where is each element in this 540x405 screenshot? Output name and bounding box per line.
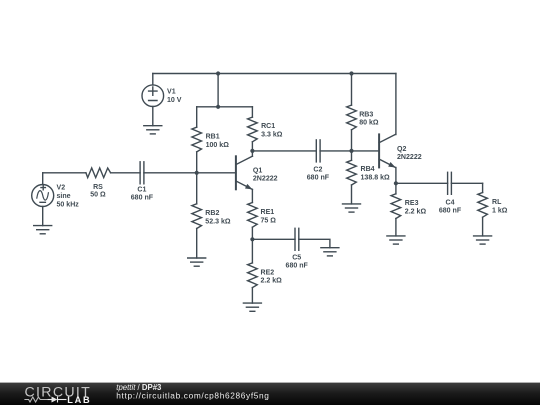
resistor RC1 — [248, 107, 258, 151]
wire Q1 collector to C2 — [252, 150, 316, 152]
svg-text:680 nF: 680 nF — [439, 207, 462, 214]
ground after C5 — [321, 248, 339, 256]
transistor Q1 2N2222 — [236, 151, 253, 203]
label RL 1 kΩ — [492, 199, 508, 214]
resistor RB1 — [192, 107, 202, 173]
wire C2 to Q2 base node — [320, 150, 379, 152]
svg-text:http://circuitlab.com/cp8h6286: http://circuitlab.com/cp8h6286yf5ng — [116, 391, 269, 401]
resistor RB2 — [192, 173, 202, 258]
label RB2 52.3 kΩ — [205, 210, 231, 225]
label V1 10 V — [167, 88, 182, 104]
svg-text:2.2 kΩ: 2.2 kΩ — [261, 278, 283, 285]
svg-text:RE2: RE2 — [261, 269, 275, 276]
ground under V2 — [34, 226, 52, 234]
ground under RB2 — [188, 258, 206, 266]
wire C4 to RL — [451, 182, 482, 184]
wire C1 to Q1 base — [144, 172, 236, 174]
svg-text:RC1: RC1 — [261, 123, 275, 130]
resistor RB4 — [347, 151, 357, 204]
svg-text:V2: V2 — [57, 185, 66, 192]
svg-text:80 kΩ: 80 kΩ — [359, 120, 379, 127]
voltage source V1 — [142, 74, 164, 126]
svg-text:100 kΩ: 100 kΩ — [206, 142, 230, 149]
label RB3 80 kΩ — [359, 111, 379, 126]
resistor RE1 — [248, 203, 258, 240]
logo diode symbol — [47, 397, 66, 403]
svg-text:2.2 kΩ: 2.2 kΩ — [405, 209, 427, 216]
label RS 50 Ω — [90, 184, 106, 199]
node Q2 emitter junction — [394, 181, 398, 185]
resistor RE3 — [391, 183, 401, 236]
svg-text:RE1: RE1 — [261, 209, 275, 216]
capacitor C5 — [295, 228, 299, 250]
label RB4 138.8 kΩ — [361, 166, 391, 181]
label RC1 3.3 kΩ — [261, 123, 283, 138]
capacitor C1 — [140, 162, 144, 184]
svg-text:C4: C4 — [445, 199, 454, 206]
svg-text:52.3 kΩ: 52.3 kΩ — [205, 218, 231, 225]
node base-bias junction — [195, 171, 199, 175]
capacitor C4 — [448, 172, 452, 194]
label C4 680 nF — [439, 199, 462, 214]
svg-text:C5: C5 — [292, 254, 301, 261]
svg-text:50 kHz: 50 kHz — [57, 202, 80, 209]
label C1 680 nF — [131, 186, 154, 201]
svg-text:V1: V1 — [167, 88, 176, 95]
svg-text:RB4: RB4 — [361, 166, 375, 173]
node RB3-RB4-Q2 base junction — [349, 149, 353, 153]
node Q1 emitter junction — [250, 237, 254, 241]
ground under RE3 — [387, 236, 405, 244]
svg-text:3.3 kΩ: 3.3 kΩ — [261, 132, 283, 139]
wire RS to C1 — [111, 172, 141, 174]
ground under RL — [474, 236, 492, 244]
svg-text:C2: C2 — [313, 167, 322, 174]
wire RB1-RC1 top bus — [197, 106, 253, 108]
transistor Q2 2N2222 — [379, 134, 396, 183]
svg-text:1 kΩ: 1 kΩ — [492, 208, 508, 215]
label C5 680 nF — [286, 254, 309, 269]
footer bar — [0, 383, 540, 405]
wire RE1 junction to C5 — [252, 238, 295, 240]
svg-text:RE3: RE3 — [405, 200, 419, 207]
svg-text:sine: sine — [57, 193, 71, 200]
svg-text:75 Ω: 75 Ω — [261, 217, 277, 224]
resistor RL — [478, 183, 488, 236]
label RB1 100 kΩ — [206, 133, 230, 148]
resistor RE2 — [248, 239, 258, 303]
svg-text:2N2222: 2N2222 — [253, 176, 278, 183]
svg-text:50 Ω: 50 Ω — [90, 192, 106, 199]
label C2 680 nF — [307, 167, 330, 182]
node rail-RB1 branch junction — [216, 71, 220, 75]
logo resistor zigzag — [24, 397, 47, 402]
ground under RE2 — [243, 303, 261, 311]
voltage source V2 (sine) — [32, 173, 54, 226]
node Q1 collector junction — [250, 149, 254, 153]
svg-text:2N2222: 2N2222 — [397, 154, 422, 161]
resistor RS — [86, 168, 111, 178]
svg-text:10 V: 10 V — [167, 97, 182, 104]
node branch tee junction — [216, 105, 220, 109]
label RE3 2.2 kΩ — [405, 200, 427, 215]
label Q1 2N2222 — [253, 167, 278, 182]
wire V2 to RS — [43, 172, 86, 174]
svg-text:C1: C1 — [137, 186, 146, 193]
svg-text:RB3: RB3 — [359, 111, 373, 118]
wire Q2 emitter to C4 — [396, 182, 448, 184]
svg-text:680 nF: 680 nF — [307, 175, 330, 182]
svg-text:RB2: RB2 — [205, 210, 219, 217]
resistor RB3 — [347, 74, 357, 151]
svg-text:RL: RL — [492, 199, 502, 206]
label Q2 2N2222 — [397, 146, 422, 161]
svg-text:RS: RS — [93, 184, 103, 191]
svg-text:680 nF: 680 nF — [286, 262, 309, 269]
label V2 sine 50 kHz — [57, 185, 80, 209]
wire Q2 collector drop — [395, 74, 397, 135]
label RE1 75 Ω — [261, 209, 277, 224]
wire C5 to ground — [299, 239, 330, 247]
svg-text:138.8 kΩ: 138.8 kΩ — [361, 174, 391, 181]
svg-text:680 nF: 680 nF — [131, 194, 154, 201]
svg-text:Q1: Q1 — [253, 167, 262, 174]
svg-text:LAB: LAB — [67, 395, 91, 405]
wire top supply rail — [153, 73, 396, 75]
ground under V1 — [144, 126, 162, 134]
label RE2 2.2 kΩ — [261, 269, 283, 284]
ground under RB4 — [343, 204, 361, 212]
svg-text:Q2: Q2 — [397, 146, 406, 153]
capacitor C2 — [316, 140, 320, 162]
node rail-RB3 junction — [349, 71, 353, 75]
svg-text:RB1: RB1 — [206, 133, 220, 140]
wire rail to RB1/RC1 branch — [217, 74, 219, 107]
